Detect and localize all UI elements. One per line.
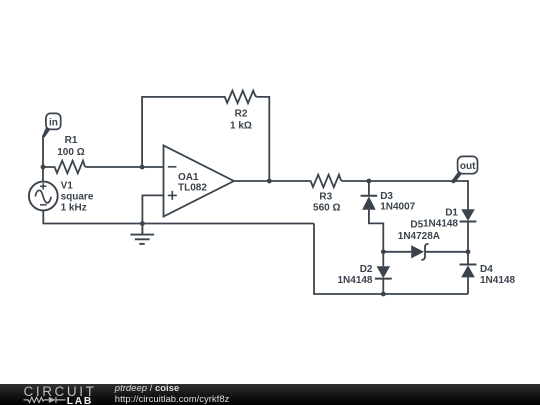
op-amp OA1 <box>164 145 234 216</box>
svg-text:D4: D4 <box>480 264 493 275</box>
svg-text:560 Ω: 560 Ω <box>313 203 340 214</box>
label R3 value <box>313 192 340 214</box>
wire D2 bottom lead <box>382 279 384 294</box>
wire R1 input run <box>43 161 164 174</box>
svg-text:1N4007: 1N4007 <box>380 201 415 212</box>
node flag out <box>451 156 477 183</box>
label D2 value <box>337 264 372 286</box>
wire bottom right rail <box>314 224 468 295</box>
svg-text:out: out <box>460 161 476 172</box>
label R2 value <box>230 109 252 132</box>
svg-text:D2: D2 <box>360 264 373 275</box>
diode D4 <box>460 265 477 278</box>
wire in-node vertical to V1 top <box>42 136 44 182</box>
node middle-right junction <box>466 249 471 254</box>
svg-text:OA1: OA1 <box>178 172 199 183</box>
wire D3 bottom lead with jog to middle junction <box>369 210 383 252</box>
diode D3 <box>361 196 378 210</box>
wire plus input <box>142 195 163 223</box>
svg-text:R3: R3 <box>319 192 332 203</box>
svg-text:D3: D3 <box>380 191 393 202</box>
svg-text:R2: R2 <box>235 109 248 120</box>
svg-text:D5: D5 <box>410 220 423 231</box>
node R2 output junction <box>267 179 272 184</box>
node bottom junction <box>381 292 386 297</box>
wire D4 bottom lead <box>467 278 469 295</box>
svg-text:1N4728A: 1N4728A <box>398 231 440 242</box>
node in/R1/V1 junction <box>41 165 46 170</box>
svg-text:1N4148: 1N4148 <box>480 275 515 286</box>
node inverting input junction <box>140 165 145 170</box>
wire D4 top lead <box>467 252 469 265</box>
label R1 value <box>57 135 84 158</box>
label D3 value <box>380 191 415 213</box>
node junction dots <box>41 165 471 297</box>
wire bottom rail from V1 bottom to x=314 <box>43 210 314 223</box>
svg-text:V1: V1 <box>61 180 74 191</box>
footer bar <box>0 384 540 405</box>
wire out top run and right vertical to D1 <box>369 181 468 209</box>
label D1 value <box>423 208 458 230</box>
svg-text:1 kΩ: 1 kΩ <box>230 120 252 131</box>
diode D1 <box>460 209 477 221</box>
wire D1 bottom lead <box>467 222 469 252</box>
footer credits text <box>115 384 179 394</box>
label D4 value <box>480 264 515 286</box>
wire D3 top lead <box>368 181 370 196</box>
wire D2 top lead <box>382 252 384 266</box>
svg-text:1N4148: 1N4148 <box>337 275 372 286</box>
diode D2 <box>375 266 392 278</box>
svg-text:100 Ω: 100 Ω <box>57 147 84 158</box>
zener diode D5 <box>411 244 428 260</box>
svg-text:LAB: LAB <box>67 396 93 405</box>
node R3/D3/out junction <box>367 179 372 184</box>
svg-text:1N4148: 1N4148 <box>423 219 458 230</box>
label D5 value <box>398 220 440 242</box>
ground <box>130 224 154 244</box>
voltage source V1 <box>29 182 58 211</box>
svg-text:D1: D1 <box>445 208 458 219</box>
svg-text:1 kHz: 1 kHz <box>61 203 87 214</box>
wire op-amp output run with R3 <box>234 175 369 188</box>
svg-text:square: square <box>61 191 94 202</box>
CircuitLab logo <box>0 384 100 405</box>
node ground junction <box>140 221 145 226</box>
wire middle run D5 leads <box>383 251 468 253</box>
svg-text:in: in <box>49 118 58 129</box>
node middle-left junction <box>381 249 386 254</box>
label V1 value <box>61 180 94 213</box>
node flag in <box>42 113 61 137</box>
svg-text:TL082: TL082 <box>178 183 207 194</box>
svg-text:R1: R1 <box>65 135 78 146</box>
wire feedback left vertical and top run with R2 <box>142 91 269 181</box>
